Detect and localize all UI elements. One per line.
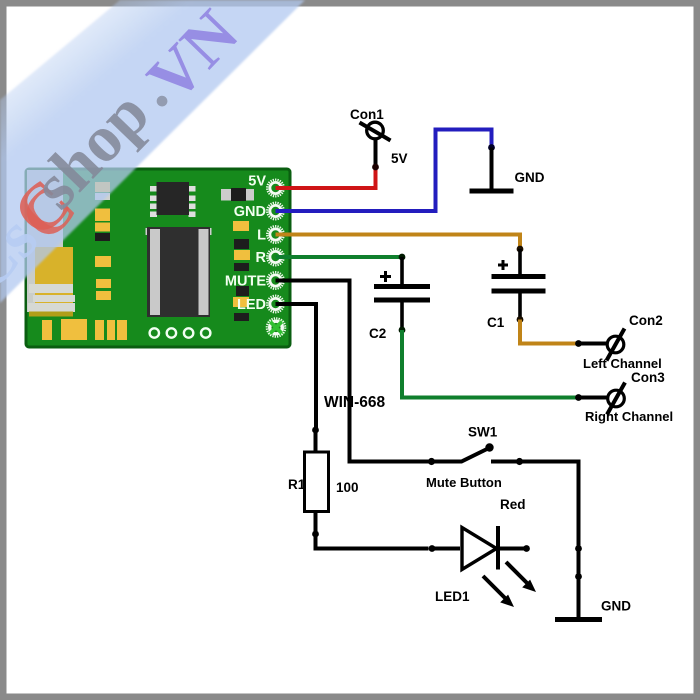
- svg-text:100: 100: [336, 480, 359, 495]
- junction dot LED anode: [429, 545, 436, 552]
- label Mute Button: [426, 475, 502, 490]
- wire switch to gnd: [491, 462, 579, 618]
- wire gnd pin: [490, 148, 494, 190]
- svg-text:Red: Red: [500, 497, 526, 512]
- svg-text:LED: LED: [237, 297, 266, 313]
- left pad column: [95, 182, 111, 300]
- connector Con2: [607, 329, 625, 361]
- wire blue GND: [276, 130, 492, 212]
- svg-text:GND: GND: [515, 170, 545, 185]
- label Con3: [631, 370, 665, 385]
- junction dot R/C2: [399, 254, 406, 261]
- svg-text:WIN-668: WIN-668: [324, 394, 386, 411]
- junction dot C1 bottom: [517, 316, 524, 323]
- label GND bottom: [601, 599, 631, 614]
- wire Con2 pin: [579, 342, 608, 346]
- label C2: [369, 326, 386, 341]
- pin pad MUTE: [267, 272, 284, 289]
- wire R1 bottom pin: [314, 512, 318, 535]
- pin pad L: [267, 226, 284, 243]
- wire mute black: [276, 281, 429, 462]
- wire orange C1 to Con2: [520, 320, 576, 344]
- label GND top: [515, 170, 545, 185]
- label Con2: [629, 313, 663, 328]
- svg-text:SW1: SW1: [468, 425, 498, 440]
- center shielded module: [146, 227, 212, 317]
- label Con1: [350, 107, 384, 122]
- svg-text:Con1: Con1: [350, 107, 384, 122]
- junction dot 5V/Con1: [372, 164, 379, 171]
- junction dot blue/gnd: [488, 144, 495, 151]
- svg-text:5V: 5V: [248, 174, 266, 190]
- LED1 arrows: [483, 562, 536, 607]
- pin pad R: [267, 249, 284, 266]
- watermark text Cshop.VN: [6, 171, 89, 254]
- junction dot right rail at LED: [575, 545, 582, 552]
- junction dot R1 top: [312, 427, 319, 434]
- wire C2 top pin: [400, 257, 404, 284]
- junction dot R1 bottom: [312, 531, 319, 538]
- svg-text:Con3: Con3: [631, 370, 665, 385]
- switch SW1: [428, 443, 523, 465]
- label Red: [500, 497, 526, 512]
- svg-text:MUTE: MUTE: [225, 274, 266, 290]
- junction dot right rail lower: [575, 573, 582, 580]
- ground symbol bottom: [555, 617, 602, 622]
- wire R1 top pin: [314, 430, 318, 452]
- svg-text:Mute Button: Mute Button: [426, 475, 502, 490]
- junction dot Con2 wire: [575, 340, 582, 347]
- label C1: [487, 315, 505, 330]
- svg-text:GND: GND: [234, 204, 266, 220]
- svg-text:R: R: [256, 250, 267, 266]
- label 100: [336, 480, 359, 495]
- LED1 diode: [432, 526, 527, 570]
- wire Con3 pin: [579, 396, 609, 400]
- pin pad LED: [267, 296, 284, 313]
- ground symbol top: [470, 189, 514, 194]
- label 5V: [391, 151, 408, 166]
- watermark text echo: [0, 202, 52, 305]
- svg-text:C2: C2: [369, 326, 386, 341]
- bottom mounting holes: [150, 328, 211, 337]
- antenna yellow pad: [35, 247, 73, 312]
- svg-text:5V: 5V: [391, 151, 408, 166]
- svg-text:Left Channel: Left Channel: [583, 356, 662, 371]
- SMD component: [221, 188, 254, 201]
- label Right Channel: [585, 409, 673, 424]
- svg-text:R1: R1: [288, 477, 306, 492]
- svg-text:GND: GND: [601, 599, 631, 614]
- label WIN-668: [324, 394, 386, 411]
- label Left Channel: [583, 356, 662, 371]
- junction dot L/C1: [517, 246, 524, 253]
- svg-text:Right Channel: Right Channel: [585, 409, 673, 424]
- connector Con3: [607, 383, 625, 415]
- pad X: [267, 318, 285, 336]
- junction dot LED cathode: [523, 545, 530, 552]
- svg-text:Con2: Con2: [629, 313, 663, 328]
- wire R1 to LED: [316, 534, 429, 549]
- wire orange L: [276, 235, 521, 248]
- svg-text:L: L: [257, 228, 266, 244]
- wire C1 top pin: [518, 249, 522, 274]
- pin labels on PCB: [225, 174, 267, 314]
- svg-text:C1: C1: [487, 315, 505, 330]
- wire green C2 to Con3: [402, 330, 576, 398]
- label LED1: [435, 589, 470, 604]
- bottom yellow pads: [42, 319, 127, 340]
- label SW1: [468, 425, 498, 440]
- capacitor C1: [492, 260, 546, 318]
- wire red 5V: [276, 167, 376, 188]
- junction dot C2 bottom: [399, 327, 406, 334]
- connector Con1: [360, 122, 391, 140]
- pin pad 5V: [267, 180, 284, 197]
- pin pad GND: [267, 203, 284, 220]
- antenna gray bars: [28, 284, 75, 312]
- wire pin Con1: [374, 139, 378, 169]
- resistor R1: [305, 452, 329, 512]
- watermark band: [0, 0, 305, 303]
- wire green R: [276, 255, 403, 259]
- IC U2 8-pin: [150, 182, 196, 217]
- junction dot Con3 wire: [575, 394, 582, 401]
- label R1: [288, 477, 306, 492]
- right pad column: [233, 221, 250, 307]
- svg-text:LED1: LED1: [435, 589, 470, 604]
- capacitor C2: [374, 271, 430, 328]
- wire LED pad to R1: [276, 304, 317, 430]
- module U1 WIN-668 PCB board: [26, 169, 290, 347]
- antenna silver plane: [27, 170, 63, 312]
